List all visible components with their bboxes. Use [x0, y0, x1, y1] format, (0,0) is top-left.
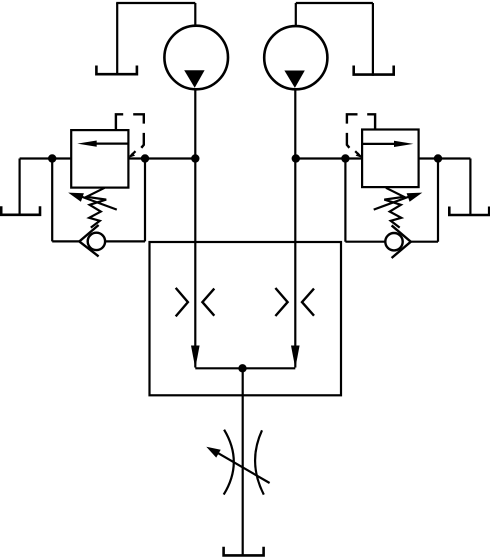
wire left drain to tank: [19, 159, 21, 216]
wire tank T2 feed vertical: [372, 3, 374, 76]
relief valve V1 pilot arrow: [130, 151, 135, 156]
orifice right-inner bracket: [302, 289, 314, 316]
wire top-right horizontal: [296, 2, 373, 4]
wire pump P2 inlet: [295, 3, 297, 27]
wire pump P2 outlet vertical to divider: [294, 88, 296, 368]
arrowhead right flow: [291, 346, 300, 369]
spring V1: [87, 188, 107, 228]
node left drain junction: [48, 154, 56, 162]
wire right drain to tank: [469, 159, 471, 216]
wire main line left outer segment: [20, 157, 72, 159]
node collector junction: [238, 364, 246, 372]
wire check line left: [52, 240, 80, 242]
tank T4 (right reservoir): [449, 207, 489, 216]
relief valve V1 pilot dashed line: [116, 114, 123, 130]
wire node to check loop riser right: [344, 159, 346, 242]
wire pump P1 outlet vertical to divider: [194, 88, 196, 368]
orifice left-inner bracket: [202, 289, 214, 316]
node pump P1 line junction: [191, 154, 199, 162]
check valve CV1 seat: [79, 225, 98, 256]
wire divider collector horizontal: [195, 367, 295, 369]
variable throttle FC1 left arc: [224, 430, 234, 495]
tank T1 (top left reservoir): [96, 66, 136, 75]
relief valve V2 body: [362, 130, 419, 188]
pump P2 flow triangle: [284, 71, 304, 88]
wire collector down to tank: [242, 368, 244, 555]
spring V2: [384, 188, 404, 228]
relief valve V1 internal arrow: [93, 143, 128, 145]
variable throttle FC1 right arc: [255, 430, 264, 494]
wire tank T1 feed vertical: [116, 3, 118, 75]
wire pump P1 inlet: [194, 3, 196, 27]
node pump P2 line junction: [292, 154, 300, 162]
arrowhead left flow: [191, 346, 200, 369]
wire check loop riser left: [144, 159, 146, 242]
wire check line right-left: [345, 241, 385, 243]
tank T3 (left reservoir): [1, 206, 40, 215]
wire drain riser right: [437, 159, 439, 242]
wire check line right: [105, 240, 145, 242]
orifice right-outer bracket: [275, 288, 287, 316]
node right valve inlet junction: [341, 154, 349, 162]
relief valve V2 internal arrow: [362, 143, 397, 145]
wire node to check valve CV1 (down): [51, 159, 53, 242]
orifice left-outer bracket: [176, 288, 188, 317]
node right drain junction: [434, 154, 442, 162]
variable throttle FC1 adjustment arrow: [213, 450, 270, 483]
wire main line right outer segment: [419, 157, 471, 159]
wire top-left horizontal: [116, 2, 195, 4]
pump P1 circle: [164, 26, 228, 90]
spring V1 adjustment arrow: [76, 195, 117, 210]
flow divider block outline: [150, 242, 342, 395]
wire check line to drain riser: [411, 241, 438, 243]
wire main line right inner segment: [296, 157, 362, 159]
check valve CV2 seat: [392, 225, 411, 258]
node left valve outlet junction: [141, 154, 149, 162]
tank T5 (bottom reservoir): [224, 547, 264, 556]
pump P1 flow triangle: [184, 70, 204, 87]
check valve CV2 ball: [385, 233, 402, 250]
wire main line left inner segment: [128, 157, 195, 159]
pump P2 circle: [264, 26, 327, 89]
spring V2 adjustment arrow: [374, 195, 415, 210]
relief valve V2 pilot arrow: [355, 151, 360, 156]
check valve CV1 ball: [88, 233, 105, 250]
relief valve V2 pilot dashed line: [367, 114, 375, 129]
relief valve V1 body: [71, 130, 128, 188]
tank T2 (top right reservoir): [354, 66, 394, 75]
